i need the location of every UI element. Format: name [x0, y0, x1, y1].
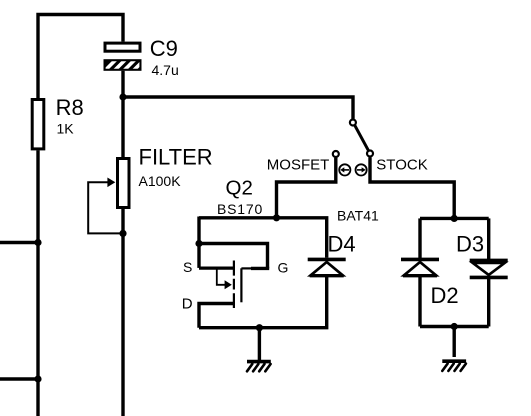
svg-text:R8: R8 [56, 95, 84, 120]
svg-text:A100K: A100K [139, 173, 182, 189]
svg-text:MOSFET: MOSFET [267, 156, 330, 173]
svg-text:C9: C9 [150, 36, 178, 61]
svg-text:G: G [278, 259, 289, 275]
svg-text:4.7u: 4.7u [152, 62, 179, 78]
svg-text:STOCK: STOCK [376, 156, 427, 173]
svg-text:D: D [182, 296, 193, 313]
svg-text:BS170: BS170 [217, 201, 263, 217]
svg-text:FILTER: FILTER [139, 144, 213, 169]
svg-text:Q2: Q2 [226, 177, 253, 200]
svg-text:BAT41: BAT41 [337, 207, 379, 223]
svg-text:D3: D3 [456, 232, 484, 257]
svg-text:D4: D4 [328, 231, 356, 256]
svg-text:1K: 1K [57, 121, 75, 137]
svg-text:S: S [183, 259, 192, 275]
svg-text:D2: D2 [431, 283, 459, 308]
